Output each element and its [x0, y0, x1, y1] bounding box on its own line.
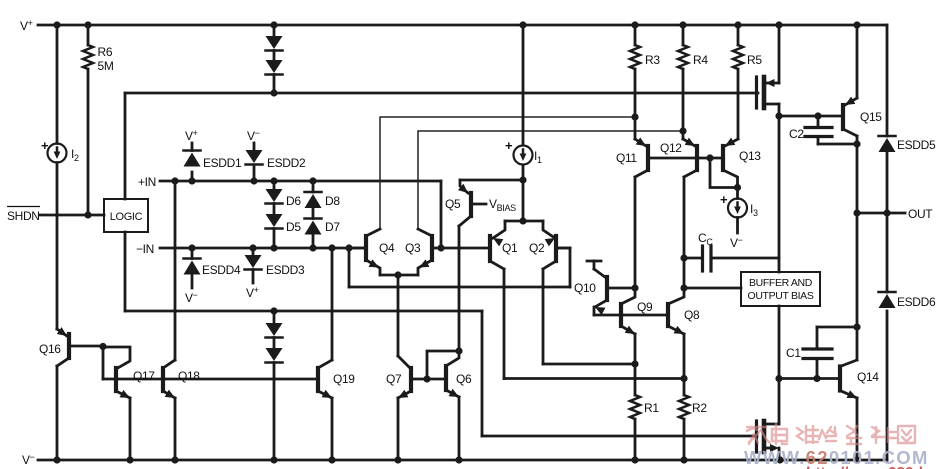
node clamp stack top junction: [270, 307, 277, 314]
svg-text:R6: R6: [98, 45, 113, 59]
transistor M2 output NMOS: [757, 379, 780, 461]
net +IN input: [138, 175, 441, 248]
wire Q19 emitter to V-: [331, 398, 334, 460]
svg-text:D7: D7: [325, 220, 340, 234]
wire Q18 emitter to V-: [174, 398, 177, 460]
svg-text:R4: R4: [693, 53, 708, 67]
svg-text:D8: D8: [325, 194, 340, 208]
resistor R4: [678, 25, 708, 131]
transistor Q6: [446, 351, 472, 397]
node Q13 collector junction: [734, 184, 741, 191]
resistor R5: [733, 25, 762, 139]
svg-text:Q3: Q3: [405, 241, 421, 255]
wire Q3 collector thin feedback to R4: [418, 131, 683, 229]
transistor Q7: [386, 368, 411, 398]
svg-text:ESDD2: ESDD2: [267, 156, 306, 170]
node Q1 Q2 tail junction: [519, 217, 526, 224]
svg-text:−IN: −IN: [136, 242, 154, 256]
transistor Q11: [616, 117, 648, 177]
capacitor C1: [786, 327, 857, 379]
node Q10 base junction: [631, 284, 638, 291]
wire Q11 Q12 Q13 base rail: [648, 154, 721, 161]
wire V+ top rail: [20, 18, 887, 33]
wire Q7 emitter to V-: [397, 398, 400, 460]
svg-text:+IN: +IN: [138, 175, 156, 189]
diode ESDD5: [879, 136, 936, 152]
wire Q8 collector to buffer input: [684, 287, 741, 290]
wire tail to Q7 collector: [398, 275, 409, 367]
diode D8: [305, 181, 341, 208]
node top rail junctions: [53, 21, 860, 28]
net OUT: [853, 207, 933, 221]
svg-text:+: +: [505, 138, 513, 153]
wire M1 drain to Q15 base: [779, 112, 841, 119]
svg-text:C2: C2: [789, 127, 804, 141]
svg-text:OUT: OUT: [908, 207, 933, 221]
diode ESDD1: [184, 128, 242, 181]
transistor Q18: [163, 360, 200, 398]
svg-text:Q18: Q18: [178, 369, 200, 383]
transistor Q5: [445, 180, 516, 226]
node -IN junctions: [188, 244, 352, 251]
node R3 feedback junction: [631, 113, 638, 120]
svg-text:R1: R1: [644, 401, 659, 415]
svg-text:Q13: Q13: [739, 149, 761, 163]
node C1 top junction: [853, 323, 860, 330]
svg-text:SHDN: SHDN: [7, 209, 40, 223]
transistor Q13: [723, 138, 761, 188]
wire Q5 collector to Q6 mirror: [458, 226, 461, 351]
wire mirror base rail: [103, 378, 316, 381]
svg-text:ESDD1: ESDD1: [203, 156, 242, 170]
wire Q4 collector thin feedback to R3: [380, 117, 635, 229]
wire Q11 collector to Q10 base: [634, 177, 637, 288]
svg-text:Q15: Q15: [860, 110, 882, 124]
wire right edge ESDD6 to V- rail: [886, 311, 889, 460]
svg-text:Q16: Q16: [39, 342, 61, 356]
svg-text:D6: D6: [286, 194, 301, 208]
node SHDN pullup junction: [84, 211, 91, 218]
diode ESDD3: [245, 248, 305, 300]
wire Q7 Q6 base rail: [411, 375, 446, 382]
transistor Q10: [574, 261, 635, 315]
wire ESDD5 to OUT: [886, 151, 889, 292]
svg-text:Q10: Q10: [574, 281, 596, 295]
capacitor C2: [789, 116, 857, 144]
transistor M1 output PMOS: [757, 25, 780, 116]
transistor Q8: [668, 288, 700, 334]
node bottom rail junctions: [53, 456, 860, 463]
current source I2: [41, 25, 79, 329]
diode D6: [266, 181, 302, 208]
svg-text:BUFFER AND: BUFFER AND: [749, 277, 813, 289]
wire Q4 Q3 tail: [380, 271, 418, 278]
current source I1: [505, 25, 542, 221]
wire buffer output: [775, 306, 782, 382]
wire Q2 collector to Q9 emitter node: [543, 269, 635, 364]
svg-text:Q9: Q9: [637, 300, 653, 314]
svg-text:Q5: Q5: [445, 197, 461, 211]
resistor R3: [630, 25, 660, 117]
diode pair top 1: [266, 25, 283, 51]
node Q8 collector junction: [680, 284, 687, 291]
current source I3: [720, 188, 758, 251]
wire Q1 collector to Q8 emitter node: [504, 269, 684, 379]
wire Q8 emitter to R2: [680, 334, 687, 382]
diode ESDD6: [879, 292, 936, 309]
wire -IN to Q2 base rail y287: [349, 248, 570, 287]
svg-text:Q7: Q7: [386, 372, 402, 386]
wire Q6 mirror link: [427, 347, 463, 379]
wire Q12 collector to Q8 collector: [683, 177, 686, 288]
wire Q16 base to Q17 base: [102, 347, 105, 380]
wire Q9 Q8 base rail: [594, 314, 666, 317]
wire Q14 emitter to V-: [856, 398, 859, 460]
watermark overlay: [744, 424, 939, 469]
transistor Q17: [116, 368, 155, 398]
svg-text:Q4: Q4: [379, 241, 395, 255]
svg-text:ESDD5: ESDD5: [897, 138, 936, 152]
node +IN junctions: [171, 177, 316, 184]
transistor Q3: [405, 229, 441, 275]
wire LOGIC output to NMOS gate: [125, 232, 757, 436]
wire Q15 collector to OUT and Q14: [853, 136, 860, 360]
wire I1 to Q5 emitter: [460, 179, 523, 182]
svg-text:ESDD6: ESDD6: [897, 295, 936, 309]
svg-text:Q2: Q2: [529, 241, 545, 255]
wire shutdown gate rail y93: [125, 93, 758, 199]
transistor Q14: [840, 360, 879, 398]
resistor R6: [83, 25, 114, 215]
net SHDN input: [7, 207, 104, 224]
svg-text:Q17: Q17: [133, 369, 155, 383]
svg-text:Q12: Q12: [660, 141, 682, 155]
node I1 output junction: [519, 176, 526, 183]
node diode pair bottom junction: [270, 89, 277, 96]
wire V- bottom rail: [22, 452, 887, 467]
svg-text:Q19: Q19: [333, 372, 355, 386]
svg-text:R3: R3: [645, 53, 660, 67]
capacitor CC: [680, 231, 779, 271]
wire Q13 base to collector loop: [710, 158, 738, 188]
wire Q9 emitter to R1: [631, 334, 638, 368]
svg-text:R5: R5: [747, 53, 762, 67]
wire Q1 Q2 tail bar: [505, 220, 543, 223]
node M1 drain junction: [775, 112, 782, 119]
wire Q16 collector to V-: [56, 366, 59, 460]
node Q16 base junction: [99, 343, 106, 350]
svg-text:Q6: Q6: [456, 372, 472, 386]
transistor Q19: [318, 360, 355, 398]
svg-text:ESDD3: ESDD3: [266, 263, 305, 277]
resistor R1: [630, 364, 659, 460]
svg-text:OUTPUT BIAS: OUTPUT BIAS: [748, 290, 814, 302]
transistor Q16: [39, 327, 103, 366]
transistor Q2: [529, 221, 570, 269]
diode clamp stack 1: [266, 311, 283, 338]
diode clamp stack 2: [266, 338, 283, 461]
node Q3 base +IN junction: [437, 244, 444, 251]
svg-text:5M: 5M: [98, 59, 114, 73]
transistor Q4: [349, 229, 395, 275]
wire +IN to Q18 collector: [174, 181, 177, 360]
svg-text:Q11: Q11: [616, 151, 637, 165]
wire buffer output rail to Q14 base: [779, 375, 840, 382]
wire -IN to Q19 collector: [331, 248, 334, 360]
transistor Q12: [660, 131, 697, 177]
wire Q6 emitter to V-: [458, 397, 461, 460]
wire Q17 collector diode link: [103, 347, 130, 369]
wire right edge V+ drop to ESDD5: [886, 25, 889, 136]
wire Q17 emitter to V-: [129, 398, 132, 460]
svg-text:http:​//www.620dq.com: http:​//www.620dq.com: [806, 465, 939, 469]
svg-text:Q14: Q14: [857, 370, 879, 384]
net -IN input: [136, 242, 366, 256]
svg-text:C1: C1: [786, 346, 801, 360]
svg-text:LOGIC: LOGIC: [110, 211, 143, 223]
diode ESDD2: [246, 128, 306, 181]
diode pair top 2: [266, 51, 283, 94]
svg-text:R2: R2: [692, 401, 707, 415]
transistor Q1: [441, 221, 518, 269]
diode D7: [305, 207, 341, 248]
svg-text:ESDD4: ESDD4: [202, 263, 241, 277]
svg-text:Q8: Q8: [684, 308, 700, 322]
transistor Q9: [621, 288, 653, 334]
svg-text:D5: D5: [286, 220, 301, 234]
logic block BUFFER AND OUTPUT BIAS: [741, 272, 820, 306]
resistor R2: [679, 379, 707, 461]
svg-text:Q1: Q1: [502, 241, 518, 255]
transistor Q15: [843, 25, 882, 136]
logic block LOGIC: [104, 199, 148, 232]
node R4 feedback junction: [679, 127, 686, 134]
wire mos drain to buffer: [778, 116, 781, 272]
svg-text:+: +: [720, 192, 728, 207]
diode ESDD4: [184, 248, 241, 305]
diode D5: [266, 204, 302, 249]
svg-text:+: +: [41, 138, 49, 153]
